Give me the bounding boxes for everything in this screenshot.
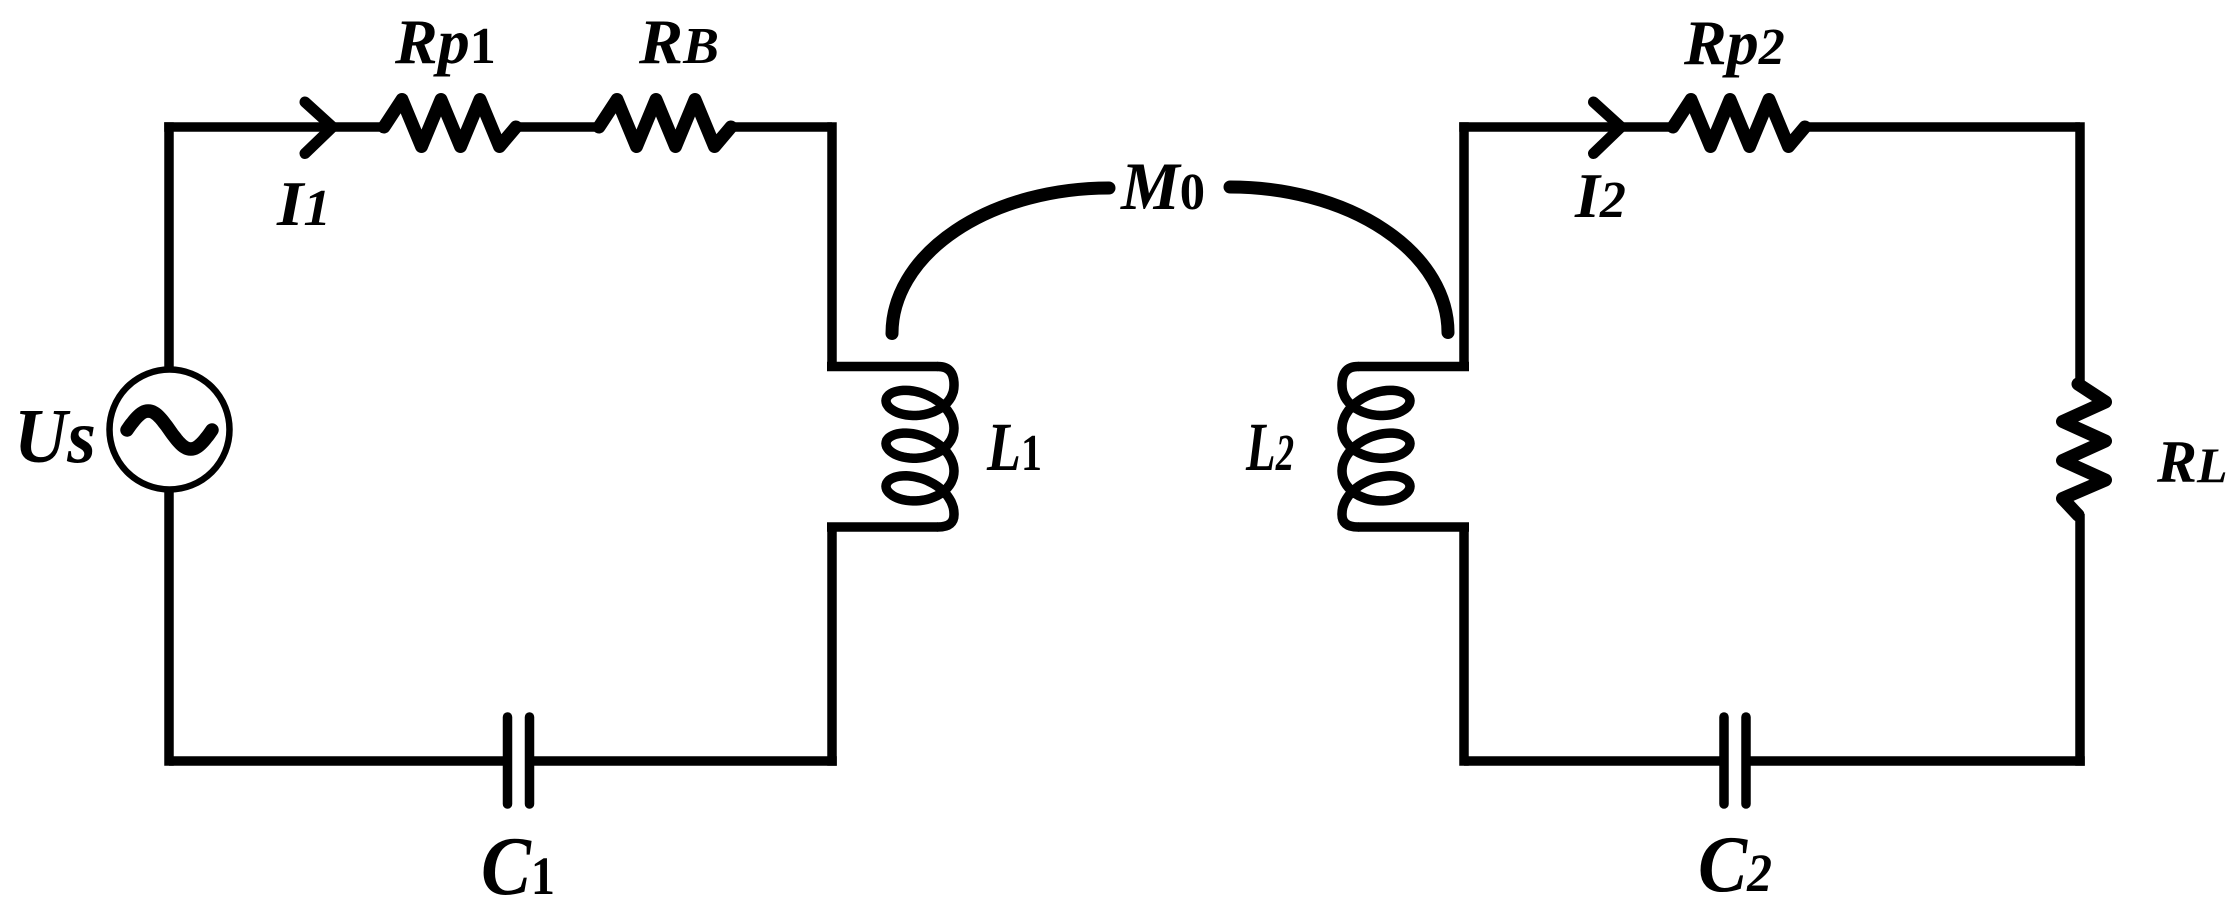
wire bottom left segment to C1 (loop 1) [169, 756, 503, 766]
wire Rp2 to top-right corner (loop 2) [1804, 122, 2080, 132]
resistor RB [599, 100, 731, 147]
mutual coupling arc right [1230, 187, 1448, 333]
capacitor C2 plates [1724, 717, 1746, 804]
svg-text:RL: RL [2156, 429, 2228, 495]
wire right vertical lower (loop 2) [2075, 514, 2085, 766]
wire jog from L2 bottom [1358, 522, 1469, 532]
wire RB to top-right corner (loop 1) [730, 122, 832, 132]
resistor RL [2063, 384, 2106, 515]
wire jog from L1 bottom [827, 522, 938, 532]
wire right vertical upper (loop 1) [827, 122, 837, 366]
inductor L1 [886, 367, 954, 528]
wire right vertical upper (loop 2) [2075, 122, 2085, 385]
mutual coupling arc left [892, 188, 1109, 334]
wire left vertical upper (loop 2) [1459, 122, 1469, 366]
svg-text:RB: RB [638, 6, 719, 77]
svg-text:M0: M0 [1120, 148, 1205, 224]
wire left vertical lower (loop 1) [164, 485, 174, 766]
arrow I2 current direction [1594, 102, 1622, 154]
svg-text:I1: I1 [276, 168, 331, 239]
svg-text:Rp2: Rp2 [1683, 7, 1785, 78]
arrow I1 current direction [305, 102, 333, 154]
capacitor C1 plates [508, 717, 530, 804]
wire jog to L2 top [1358, 362, 1469, 372]
svg-text:Us: Us [14, 393, 96, 479]
wire top segment to Rp2 (loop 2) [1459, 122, 1674, 132]
svg-text:L1: L1 [986, 409, 1042, 485]
wire top segment to Rp1 (loop 1) [164, 122, 385, 132]
resistor Rp1 [384, 100, 516, 147]
wire bottom left segment to C2 (loop 2) [1464, 756, 1720, 766]
svg-text:C2: C2 [1698, 821, 1772, 909]
wire right vertical lower (loop 1) [827, 527, 837, 766]
inductor L2 [1342, 367, 1410, 528]
wire bottom right segment from C1 (loop 1) [534, 756, 837, 766]
wire left vertical lower (loop 2) [1459, 527, 1469, 766]
svg-text:Rp1: Rp1 [394, 6, 496, 77]
AC source Us circle [110, 370, 230, 490]
svg-text:L2: L2 [1245, 409, 1294, 485]
wire between Rp1 and RB (loop 1) [515, 122, 600, 132]
AC source sine wave [127, 411, 212, 449]
wire jog to L1 top [827, 362, 938, 372]
resistor Rp2 [1673, 100, 1805, 147]
wire left vertical upper (loop 1) [164, 122, 174, 374]
svg-text:C1: C1 [481, 820, 555, 913]
wire bottom right segment from C2 (loop 2) [1750, 756, 2085, 766]
svg-text:I2: I2 [1574, 160, 1626, 231]
